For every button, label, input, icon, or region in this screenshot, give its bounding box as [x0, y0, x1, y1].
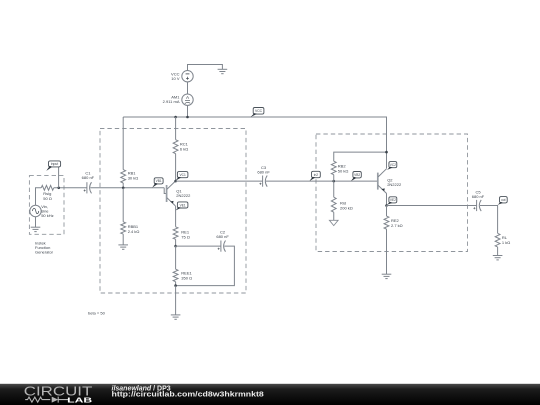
svg-text:75 Ω: 75 Ω [181, 234, 190, 239]
svg-text:50 Ω: 50 Ω [43, 196, 52, 201]
svg-text:VB2: VB2 [354, 173, 360, 177]
svg-text:50 kΩ: 50 kΩ [338, 168, 349, 173]
svg-text:680 nF: 680 nF [472, 194, 485, 199]
svg-text:beta = 50: beta = 50 [88, 311, 106, 316]
svg-text:LAB: LAB [67, 395, 92, 404]
svg-text:6 kΩ: 6 kΩ [180, 146, 188, 151]
svg-text:1 kΩ: 1 kΩ [502, 240, 510, 245]
svg-text:200 kΩ: 200 kΩ [340, 205, 353, 210]
svg-text:out: out [501, 198, 506, 202]
svg-text:2.4 kΩ: 2.4 kΩ [128, 229, 140, 234]
svg-text:2.7 kΩ: 2.7 kΩ [391, 223, 403, 228]
svg-text:2N2222: 2N2222 [176, 193, 191, 198]
svg-text:Generator: Generator [35, 250, 54, 255]
svg-text:30 kΩ: 30 kΩ [128, 176, 139, 181]
svg-text:http://circuitlab.com/cd8w3hkr: http://circuitlab.com/cd8w3hkrmnkt8 [112, 392, 264, 399]
svg-text:10 V: 10 V [171, 76, 180, 81]
svg-text:VC1: VC1 [180, 173, 186, 177]
svg-text:VE1: VE1 [180, 203, 186, 207]
svg-text:VC2: VC2 [390, 163, 396, 167]
svg-text:350 Ω: 350 Ω [181, 275, 192, 280]
svg-text:2.911 mA: 2.911 mA [163, 99, 180, 104]
svg-text:680 nF: 680 nF [82, 175, 95, 180]
svg-text:VE2: VE2 [390, 198, 396, 202]
svg-text:2N2222: 2N2222 [387, 182, 402, 187]
svg-text:in2: in2 [314, 173, 318, 177]
svg-text:input: input [51, 162, 58, 166]
svg-text:680 nF: 680 nF [216, 234, 229, 239]
svg-text:VB1: VB1 [156, 179, 162, 183]
svg-text:680 nF: 680 nF [257, 170, 270, 175]
svg-text:50 kHz: 50 kHz [41, 213, 53, 218]
svg-text:VCC: VCC [255, 109, 263, 113]
